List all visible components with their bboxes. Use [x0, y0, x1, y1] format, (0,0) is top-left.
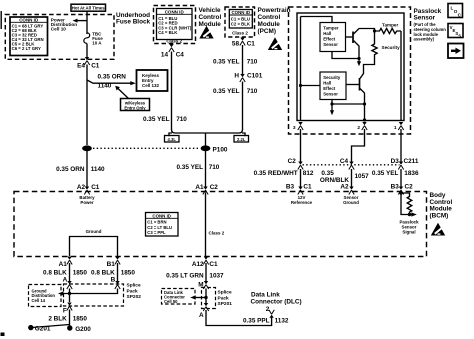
wire right rail: [400, 31, 402, 121]
icon arrow: [448, 44, 464, 59]
transistor Q2 emitter: [360, 89, 365, 121]
svg-text:Class 2: Class 2: [166, 39, 182, 44]
svg-text:3: 3: [293, 125, 296, 131]
hot-at-all-times label box: [71, 4, 106, 11]
svg-text:C1: C1: [247, 40, 256, 47]
svg-text:0.35 LT GRN: 0.35 LT GRN: [166, 272, 204, 279]
svg-text:Power: Power: [80, 200, 93, 205]
svg-text:C2: C2: [288, 158, 297, 165]
wire merge to P100: [205, 133, 207, 146]
svg-text:SP202: SP202: [127, 294, 142, 300]
svg-text:C1: C1: [91, 184, 100, 191]
svg-text:0.35 YEL: 0.35 YEL: [213, 59, 240, 66]
wire RED/WHT to BCM: [300, 169, 302, 187]
svg-text:C4: C4: [176, 52, 185, 59]
BCM pin connector B3/C1: [298, 187, 303, 195]
node Q2 emitter junction: [363, 102, 366, 105]
svg-text:812: 812: [303, 170, 314, 177]
label 0.35 ORN/BLK: [320, 170, 349, 184]
w/keyless entry only box: [121, 99, 150, 111]
svg-text:710: 710: [247, 59, 258, 66]
svg-text:Connector (DLC): Connector (DLC): [251, 299, 302, 306]
svg-text:0.35 YEL: 0.35 YEL: [372, 170, 399, 177]
splice pack SP201 box: [202, 288, 216, 309]
svg-text:A1: A1: [195, 184, 204, 191]
BCM pin connector A1/C2: [203, 187, 208, 195]
pin 2 connector: [362, 122, 367, 130]
data link connector DLC label: [251, 292, 302, 306]
splice pack SP202 box: [64, 284, 124, 306]
wire pin3 to C211: [300, 129, 302, 162]
svg-text:A12: A12: [192, 261, 204, 268]
tamper hall effect sensor box: [320, 23, 346, 52]
wire class 2 through BCM: [205, 193, 207, 257]
SP202 pin connector A: [67, 281, 72, 289]
svg-text:A2: A2: [77, 184, 86, 191]
BCM pin connector B1: [115, 257, 120, 265]
power distribution cell 10 label: [51, 18, 77, 32]
arrowhead to data link cell: [190, 295, 196, 299]
svg-text:58: 58: [232, 40, 240, 47]
svg-text:C1: C1: [91, 63, 100, 70]
splice pack SP201 label: [218, 290, 233, 308]
svg-text:1836: 1836: [404, 170, 419, 177]
svg-text:2.2L: 2.2L: [237, 137, 246, 142]
svg-text:Sensor: Sensor: [323, 92, 338, 97]
svg-text:Ground: Ground: [86, 229, 102, 234]
svg-text:C1: C1: [209, 261, 218, 268]
svg-text:Cell 132: Cell 132: [142, 83, 160, 88]
svg-text:1037: 1037: [209, 272, 224, 279]
wire SP201 through: [205, 289, 207, 304]
wire PCM YEL upper: [242, 45, 244, 74]
svg-text:F: F: [63, 308, 67, 315]
powertrain control module dashed box: [225, 7, 255, 37]
wire YEL 1836 to BCM: [400, 169, 402, 187]
svg-text:Effect: Effect: [323, 86, 336, 91]
label 12V Reference: [291, 195, 313, 205]
svg-text:Splice: Splice: [127, 283, 141, 289]
connector C211 crossing middle: [349, 162, 354, 170]
label Battery Power: [79, 195, 95, 205]
transistor Q1 emitter: [354, 41, 360, 59]
Q1 emitter arrow: [357, 59, 361, 67]
connector C211 crossing left: [298, 162, 303, 170]
connector H/C101: [240, 74, 245, 82]
svg-text:A2: A2: [340, 183, 349, 190]
svg-text:CONN ID: CONN ID: [152, 213, 171, 218]
svg-text:2: 2: [357, 125, 360, 131]
svg-text:1850: 1850: [73, 269, 88, 276]
svg-text:Security: Security: [382, 45, 401, 50]
svg-text:B3: B3: [391, 183, 400, 190]
wire VCM YEL down: [171, 52, 173, 131]
node resistor bottom junction: [408, 213, 411, 216]
node Q1 emitter junction: [357, 57, 360, 60]
svg-text:CONN ID: CONN ID: [19, 17, 39, 22]
w/keyless callout arrow: [115, 86, 128, 99]
svg-text:0.35 YEL: 0.35 YEL: [143, 116, 170, 123]
SP201 pin connector M: [203, 281, 208, 289]
body control module label: [430, 192, 453, 219]
wire pin2 to C211: [352, 129, 365, 162]
svg-text:P100: P100: [213, 147, 228, 154]
svg-text:B3: B3: [286, 183, 295, 190]
svg-text:Tamper: Tamper: [382, 22, 398, 27]
transistor Q1 base wire: [346, 36, 353, 38]
wire ORN vertical upper: [86, 65, 88, 146]
wire BLK A1 down: [69, 263, 71, 283]
svg-text:Control: Control: [258, 14, 281, 21]
arrowhead to keyless entry: [130, 81, 136, 85]
svg-text:Module: Module: [199, 21, 222, 28]
splice pack SP202 label: [127, 283, 142, 301]
svg-text:Sensor: Sensor: [414, 15, 436, 22]
svg-text:Sensor: Sensor: [323, 42, 338, 47]
svg-text:0.8 BLK: 0.8 BLK: [91, 269, 115, 276]
wire BLK B1 down: [117, 263, 119, 283]
fuse TBC 10A: [84, 33, 90, 44]
svg-text:H: H: [234, 72, 239, 79]
svg-text:1057: 1057: [355, 173, 370, 180]
keyless entry cell box: [137, 70, 168, 91]
svg-text:Tamper: Tamper: [323, 26, 339, 31]
svg-text:Reference: Reference: [291, 200, 313, 205]
grommet P100 on ORN wire: [82, 145, 92, 151]
svg-text:10 A: 10 A: [92, 40, 102, 45]
node left rail junction: [299, 84, 302, 87]
svg-text:Hall: Hall: [323, 31, 331, 36]
wire LT GRN down: [205, 263, 207, 282]
passlock sensor inner box: [297, 13, 404, 121]
wire ORN/BLK to BCM: [351, 169, 353, 187]
wire arrow to data link cell: [194, 297, 206, 299]
resistor passlock signal branch: [401, 193, 412, 215]
connector C211 crossing right: [398, 162, 403, 170]
SP202 pin connector F: [67, 303, 72, 311]
svg-text:2 BLK: 2 BLK: [48, 315, 67, 322]
svg-text:Class 2: Class 2: [232, 30, 248, 35]
svg-text:1850: 1850: [73, 315, 88, 322]
svg-text:0.35 RED/WHT: 0.35 RED/WHT: [254, 170, 298, 177]
svg-text:0.35 ORN: 0.35 ORN: [98, 73, 127, 80]
svg-text:0.35 ORN: 0.35 ORN: [56, 166, 85, 173]
node Q2 emitter to rail: [363, 118, 366, 121]
VCM ESD triangle: [199, 26, 213, 39]
svg-text:Pack: Pack: [127, 288, 139, 294]
wire PCM YEL lower: [242, 82, 244, 131]
vehicle control module dashed box: [154, 6, 196, 44]
wire left rail: [300, 17, 302, 121]
grommet P100 on YEL wire: [201, 145, 211, 151]
option box 2.2L: [234, 136, 249, 143]
svg-text:Hall: Hall: [323, 81, 331, 86]
svg-text:E4: E4: [77, 63, 85, 70]
merge bar wire: [169, 130, 245, 137]
DLC pin 2 connector: [269, 310, 274, 318]
transistor Q1 collector: [354, 29, 375, 43]
svg-text:Pack: Pack: [218, 295, 230, 301]
wire ground bracket: [70, 237, 118, 257]
transistor Q2 base bar: [359, 78, 361, 91]
power distribution arrow: [73, 19, 88, 23]
option box 4.3L: [165, 136, 180, 143]
label Sensor Ground: [343, 195, 359, 205]
svg-text:G200: G200: [75, 326, 91, 333]
PCM pin connector 58/C1: [240, 38, 245, 46]
svg-text:0.35 YEL: 0.35 YEL: [213, 88, 240, 95]
svg-text:0.8 BLK: 0.8 BLK: [43, 269, 67, 276]
svg-text:Cell 10: Cell 10: [51, 27, 67, 32]
svg-text:1: 1: [394, 125, 397, 131]
BCM pin connector A2/C1: [84, 187, 89, 195]
node SP202 junction: [68, 292, 71, 295]
passlock sensor label: [414, 8, 442, 22]
ground G201: [28, 325, 33, 330]
svg-text:Effect: Effect: [323, 37, 336, 42]
svg-text:Data Link: Data Link: [251, 292, 280, 299]
svg-text:A1: A1: [59, 261, 68, 268]
svg-text:710: 710: [209, 164, 220, 171]
underhood fuse block label: [116, 12, 151, 26]
svg-text:assembly): assembly): [414, 37, 435, 42]
svg-text:C4: C4: [340, 158, 349, 165]
resistor Tamper: [375, 28, 402, 33]
passlock sensor outer dashed box: [289, 7, 411, 134]
wire top feed: [301, 17, 333, 23]
data link connector cell 50 box: [162, 289, 196, 305]
underhood fuse block box: [5, 15, 114, 60]
wire branch to keyless entry: [87, 80, 132, 83]
connector C211 dotted line: [303, 164, 400, 166]
PCM ESD triangle: [268, 37, 282, 50]
wire YEL P100 to BCM: [205, 151, 207, 187]
border artifact left edge: [0, 11, 2, 29]
svg-text:S: S: [458, 33, 461, 38]
svg-text:C4 = BLK: C4 = BLK: [158, 30, 178, 35]
node security sensor bottom junction: [330, 102, 333, 105]
svg-text:C2: C2: [210, 184, 219, 191]
wire pin1 to C211: [400, 129, 402, 162]
svg-text:Signal: Signal: [402, 229, 415, 234]
BCM ESD triangle: [431, 223, 445, 236]
svg-text:Splice: Splice: [218, 290, 232, 296]
fuse block CONN ID table: [10, 17, 48, 56]
wire security resistor to Q2 collector: [360, 56, 375, 79]
svg-text:C6 = 2 LT GRY: C6 = 2 LT GRY: [12, 46, 41, 51]
svg-text:C2 = BLK: C2 = BLK: [231, 22, 251, 27]
svg-text:Class 2: Class 2: [209, 230, 225, 235]
VCM pin connector 14/C4: [169, 44, 174, 52]
vehicle control module label: [199, 7, 222, 28]
svg-text:C2: C2: [405, 183, 414, 190]
wire left rail to security sensor: [301, 85, 321, 87]
svg-text:Hot At All Times: Hot At All Times: [72, 6, 105, 11]
PCM CONN ID table: [229, 10, 252, 29]
arrowhead to ground distribution: [58, 291, 64, 295]
transistor Q1 base bar: [352, 32, 354, 44]
svg-text:Fuse Block: Fuse Block: [116, 19, 151, 26]
pin 3 connector: [298, 122, 303, 130]
wire SP202 splice bar: [62, 289, 118, 294]
ground distribution cell 14 box: [29, 285, 62, 307]
wire PPL to DLC: [206, 310, 272, 326]
node SP201 junction: [204, 296, 207, 299]
svg-text:B1: B1: [107, 261, 116, 268]
svg-text:Entry Only: Entry Only: [124, 105, 146, 110]
svg-text:14: 14: [161, 52, 169, 59]
svg-text:Cell 14: Cell 14: [32, 298, 46, 303]
wire SP202 A through: [69, 289, 71, 303]
svg-text:0.35: 0.35: [321, 170, 334, 177]
wire ORN P100 to BCM: [86, 151, 88, 187]
svg-text:Security: Security: [323, 75, 341, 80]
svg-text:710: 710: [176, 116, 187, 123]
svg-text:C211: C211: [404, 158, 419, 165]
svg-text:1132: 1132: [275, 318, 289, 325]
BCM CONN ID table: [146, 213, 179, 237]
wire from hot-at-all-times to fuse: [86, 11, 88, 34]
svg-text:SP201: SP201: [218, 301, 233, 307]
svg-text:0.35 PPL: 0.35 PPL: [243, 318, 270, 325]
SP202 pin connector B: [115, 281, 120, 289]
connector E4/C1: [84, 57, 89, 65]
powertrain control module label: [258, 7, 291, 35]
svg-text:710: 710: [247, 88, 258, 95]
svg-text:G201: G201: [35, 326, 51, 333]
VCM CONN ID table: [157, 9, 193, 40]
wire security sensor bottom: [332, 100, 365, 105]
SP201 pin connector A: [203, 303, 208, 311]
resistor Security: [372, 43, 377, 57]
BCM pin connector A1: [67, 257, 72, 265]
BCM pin connector B3/C2: [398, 187, 403, 195]
svg-text:4.3L: 4.3L: [168, 137, 177, 142]
pin 1 connector: [398, 122, 403, 130]
wire 2 BLK to G200: [69, 310, 71, 328]
svg-text:1140: 1140: [98, 83, 112, 90]
svg-text:D3: D3: [391, 158, 400, 165]
svg-text:Module: Module: [258, 21, 281, 28]
svg-text:Powertrain: Powertrain: [258, 7, 291, 14]
svg-text:C1: C1: [303, 183, 312, 190]
wire branch to G201: [32, 325, 70, 328]
node passlock signal junction: [399, 191, 402, 194]
ground G200: [67, 325, 72, 330]
wire passlock signal path: [401, 193, 412, 215]
svg-text:Ground: Ground: [343, 200, 359, 205]
icon VESS: [448, 24, 463, 39]
svg-text:C101: C101: [247, 72, 263, 79]
icon LOC: [448, 4, 463, 18]
svg-text:Cell 50: Cell 50: [164, 299, 178, 304]
svg-text:A: A: [63, 276, 68, 283]
security hall effect sensor box: [320, 72, 346, 100]
svg-text:A: A: [199, 312, 204, 319]
BCM pin connector A2: [349, 187, 354, 195]
border artifact bottom-left mark: [1, 333, 5, 337]
wire tamper sensor bottom to Q1 emitter: [332, 52, 359, 59]
svg-text:(BCM): (BCM): [430, 212, 449, 219]
passlock sensor sub label: [414, 22, 447, 41]
BCM pin connector A12/C1: [203, 257, 208, 265]
svg-text:CONN ID: CONN ID: [232, 10, 251, 15]
svg-text:1850: 1850: [121, 269, 136, 276]
svg-text:0.35 YEL: 0.35 YEL: [176, 164, 203, 171]
transistor Q2 base wire: [346, 84, 359, 86]
svg-text:CONN ID: CONN ID: [165, 9, 185, 14]
svg-text:1140: 1140: [91, 166, 105, 173]
svg-text:(PCM): (PCM): [258, 28, 276, 35]
passlock signal arrow: [411, 212, 417, 216]
security sensor ground arrow: [330, 104, 334, 115]
wire fuse to E4: [86, 44, 88, 58]
label Passlock Sensor Signal: [399, 219, 419, 234]
fuse label TBC Fuse 10 A: [92, 31, 103, 45]
svg-text:C3 = PPL: C3 = PPL: [147, 230, 166, 235]
svg-text:B: B: [111, 276, 116, 283]
body control module dashed box: [14, 192, 427, 257]
node tamper resistor junction: [373, 29, 376, 32]
P100 dotted pass-through line: [93, 147, 200, 149]
